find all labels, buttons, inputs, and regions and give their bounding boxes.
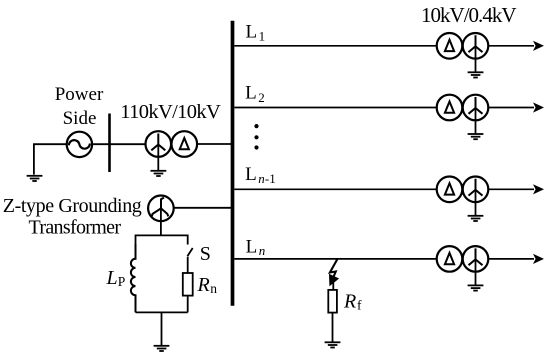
svg-text:L: L bbox=[246, 21, 258, 42]
label L2 bbox=[245, 82, 265, 105]
svg-text:10kV/0.4kV: 10kV/0.4kV bbox=[421, 3, 517, 27]
svg-text:Power: Power bbox=[55, 84, 104, 105]
wire Z transformer down to box bbox=[160, 209, 162, 236]
wire T1 to bus bbox=[197, 143, 231, 145]
wire T-L2 to ground bbox=[475, 108, 477, 134]
svg-text:L: L bbox=[245, 82, 257, 103]
feeder T-Ln-1 wye circle bbox=[463, 177, 489, 203]
label Rf bbox=[343, 291, 362, 313]
transformer T1 wye circle bbox=[146, 131, 172, 157]
feeder T-L1 delta circle bbox=[437, 33, 463, 59]
Z-type grounding transformer circle bbox=[148, 196, 174, 222]
svg-text:R: R bbox=[197, 274, 210, 296]
svg-text:110kV/10kV: 110kV/10kV bbox=[120, 101, 221, 123]
transformer T1 delta circle bbox=[172, 131, 198, 157]
feeder Ln-1 wire bbox=[234, 188, 436, 190]
svg-text:-1: -1 bbox=[265, 171, 276, 186]
resistor Rn bbox=[183, 273, 193, 296]
ellipsis dots bbox=[254, 124, 258, 150]
svg-text:S: S bbox=[200, 243, 211, 265]
label Ln bbox=[246, 236, 266, 257]
svg-text:2: 2 bbox=[258, 90, 265, 105]
wire box to ground bbox=[161, 312, 163, 345]
feeder T-Ln delta circle bbox=[437, 246, 463, 272]
fault lightning arrow bbox=[330, 259, 338, 285]
ground G-L1 bbox=[468, 72, 484, 77]
bus tick (breaker bar) bbox=[108, 114, 111, 173]
switch S bbox=[187, 248, 192, 273]
svg-text:f: f bbox=[357, 298, 362, 313]
wire T1 neutral to ground bbox=[157, 145, 159, 171]
ground G4 bbox=[325, 342, 341, 347]
AC source G bbox=[67, 132, 92, 157]
feeder T-Ln wye circle bbox=[463, 246, 489, 272]
svg-text:L: L bbox=[245, 164, 257, 185]
resistor Rf bbox=[328, 290, 337, 313]
wire Z transformer to bus bbox=[174, 207, 231, 209]
svg-text:Transformer: Transformer bbox=[29, 217, 122, 239]
ground G-Ln bbox=[468, 285, 484, 290]
label Ln-1 bbox=[245, 164, 276, 186]
svg-text:n: n bbox=[210, 281, 217, 296]
label L1 bbox=[246, 21, 266, 43]
svg-text:Side: Side bbox=[63, 108, 97, 129]
svg-text:Z-type Grounding: Z-type Grounding bbox=[3, 195, 142, 217]
wire source left to ground bbox=[34, 144, 67, 174]
feeder L2 arrow bbox=[488, 102, 544, 112]
wire T-L1 to ground bbox=[475, 46, 477, 72]
label Z-type Grounding Transformer bbox=[3, 195, 142, 239]
ground G-L2 bbox=[468, 134, 484, 139]
feeder L2 wire bbox=[234, 107, 436, 109]
ground G2 bbox=[151, 171, 167, 176]
feeder T-L1 wye circle bbox=[463, 33, 489, 59]
ground G1 bbox=[27, 176, 43, 181]
feeder T-L2 delta circle bbox=[437, 95, 463, 121]
feeder L1 wire bbox=[234, 45, 436, 47]
svg-text:1: 1 bbox=[259, 29, 266, 44]
wire Rn to box bottom bbox=[187, 296, 189, 313]
ground G-Ln-1 bbox=[468, 216, 484, 221]
feeder L1 arrow bbox=[488, 41, 544, 51]
wire box bottom bbox=[136, 311, 188, 313]
wire box top bbox=[136, 235, 188, 244]
inductor LP bbox=[131, 244, 136, 312]
svg-text:R: R bbox=[343, 291, 356, 313]
svg-text:n: n bbox=[258, 171, 265, 186]
svg-text:L: L bbox=[106, 267, 118, 289]
ground G3 bbox=[154, 346, 170, 351]
bus bar bbox=[231, 21, 235, 306]
label Power Side bbox=[55, 84, 104, 129]
wire T-Ln to ground bbox=[475, 259, 477, 285]
feeder Ln wire bbox=[234, 258, 436, 260]
svg-text:n: n bbox=[259, 243, 266, 258]
feeder T-L2 wye circle bbox=[463, 95, 489, 121]
label LP bbox=[106, 267, 126, 289]
feeder Ln-1 arrow bbox=[488, 184, 544, 194]
wire Rf to ground bbox=[332, 313, 334, 342]
svg-text:P: P bbox=[118, 274, 126, 289]
wire source to transformer bbox=[92, 143, 146, 145]
label Rn bbox=[197, 274, 218, 296]
svg-text:L: L bbox=[246, 236, 258, 257]
feeder T-Ln-1 delta circle bbox=[437, 177, 463, 203]
feeder Ln arrow bbox=[488, 254, 544, 264]
wire T-Ln-1 to ground bbox=[475, 190, 477, 216]
wire fault to Rf bbox=[332, 283, 334, 290]
